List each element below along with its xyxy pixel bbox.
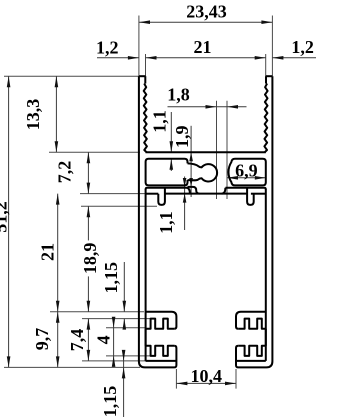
dimension line 7,4 vertical [87,319,89,361]
extension line web underside going left for 7,2 / 21 [80,193,146,195]
left box inner wall face [145,189,147,361]
svg-text:6,9: 6,9 [235,160,258,180]
web interior ceiling right segment with step arc [222,188,266,194]
extension line screw circle right for 1,8 [216,101,218,199]
dimension line 1,2 right leader [272,57,316,59]
dimension line 1,9 vertical [190,126,192,197]
arrow 23,43 right [261,20,272,24]
arrow 4 bottom (pointing up at notch floor) [112,356,116,367]
right gasket pocket plate [251,193,266,195]
svg-text:7,2: 7,2 [55,161,75,184]
dimension line 51,2 vertical [8,76,10,367]
right bracket slot back [265,329,267,346]
left gasket pocket plate [146,193,159,195]
right wall knurl serration [264,84,267,153]
arrow 7,4 bottom [87,350,91,361]
dimension line 13,3 vertical [55,76,57,152]
svg-text:1,9: 1,9 [172,126,192,149]
arrow 1,1 upper pointing down at floor [170,141,174,152]
extension line left foot edge down for 10,4 [175,369,177,389]
svg-text:1,15: 1,15 [101,262,121,294]
extension line finger bottom going left for 18,9 [81,205,157,207]
right bracket lower arm top with comb notches [238,346,266,356]
left bracket slot back [145,329,147,346]
arrow 7,4 top [87,319,91,330]
dimension line 1,8 [168,106,247,108]
extension line top of profile going left for 51,2 and 13,3 [4,75,145,77]
arrow 1,9 pointing up at jaw tip [189,178,193,187]
dimension line 4 vertical [113,319,115,366]
shelf under bottom jaw and step to underside [188,187,200,194]
web underside middle line [165,193,247,195]
extension line left of 23,43 (top of left wall up) [138,16,140,77]
arrow 1,15 bottom pointing down at arm underside [122,350,126,361]
arrow 1,8 right (pointing left) [227,105,238,109]
svg-text:51,2: 51,2 [0,201,11,233]
arrow 18,9 bottom [87,301,91,312]
screw port keyhole top jaw and circle and bottom jaw [188,163,218,181]
svg-text:1,15: 1,15 [100,386,120,418]
right wall inner face (above knurl) [265,76,267,83]
svg-text:18,9: 18,9 [80,243,100,275]
left bracket lower arm top with comb notches [146,346,175,356]
arrow 1,15 upper pointing down at bracket top [123,301,127,312]
dimension line 1,1 lower vertical [184,177,186,231]
arrow 18,9 top [87,206,91,217]
arrow 1,1 lower pointing up at underside [183,194,187,203]
extension line right of 23,43 (top of right wall up) [271,16,273,77]
dimension line 1,1 upper vertical [170,112,172,152]
arrow 1,2 left (pointing right at outer wall) [128,56,139,60]
left lower arm underside line [146,360,177,362]
extension line lower arm underside going left for 7,4 / 1,15 [82,360,146,362]
svg-text:21: 21 [194,37,212,57]
left web hole (rounded rect open at keyhole throat) [146,159,188,186]
extension line bracket top going left for 21 / 9,7 / 1,15 [50,311,144,313]
arrow 21-left bottom [56,301,60,312]
extension line right foot edge down for 10,4 [235,369,237,389]
right box inner wall face [265,189,267,361]
dimension line 1,15 upper vertical [123,262,125,312]
arrow 13,3 bottom [55,141,59,152]
extension line bottom edge going left for 51,2 / 9,7 / 1,15 [4,366,140,368]
extension line right hole left edge for 1,8 [226,101,228,199]
svg-text:1,8: 1,8 [167,85,190,105]
right bracket upper arm underside with comb notches [238,319,266,329]
left gasket finger (U hanging down) [158,188,165,205]
left wall cap [139,75,146,77]
arrow 1,15 upper pointing up at notch ceiling [123,319,127,330]
left wall inner face (above knurl) [144,76,146,83]
svg-text:23,43: 23,43 [186,1,227,21]
dimension line 6,9 [227,177,266,179]
arrow 1,1 lower pointing down at slot ceiling [183,178,187,187]
svg-text:1,2: 1,2 [291,37,314,57]
left wall knurl serration [144,84,147,153]
svg-text:1,2: 1,2 [96,37,119,57]
arrow 1,8 left (pointing right) [206,105,217,109]
svg-text:21: 21 [37,243,57,261]
arrow 1,15 bottom pointing up at bottom edge [122,367,126,378]
arrow 1,9 pointing down at floor [189,152,193,161]
right web hole 6,9 (rounded rect) [228,159,265,186]
extension line inner left wall up for 21 [145,54,147,76]
arrow 9,7 bottom [56,356,60,367]
arrow 23,43 left [139,20,150,24]
arrow 6,9 left [227,176,238,180]
arrow 7,2 bottom [87,183,91,194]
arrow 51,2 bottom [7,356,11,367]
extension line channel floor going left for 13,3 / 7,2 [49,151,140,153]
dimension line 1,15 upper lower tail [123,319,125,328]
arrow 21-left top [56,194,60,205]
right wall cap [266,75,273,77]
text 18,9 rotated (with white backing over its line) [80,240,100,276]
svg-text:10,4: 10,4 [191,366,223,386]
dimension line 21 / 9,7 vertical chain [57,194,59,368]
extension line arm underside going left for 4 [106,327,146,329]
arrow 10,4 right [225,382,236,386]
extension line lower notch floor going left for 4 [106,355,151,357]
svg-text:9,7: 9,7 [32,328,52,351]
svg-text:1,1: 1,1 [156,211,176,234]
dimension line 1,2 left leader [97,57,139,59]
left bracket upper arm underside with comb notches [146,319,175,329]
dimension line 10,4 [176,382,236,384]
dimension line 21 top [146,57,266,59]
extension line inner right wall up for 21 [265,54,267,76]
arrow 10,4 left [176,382,187,386]
dimension line 1,15 bottom vertical [123,352,125,417]
dimension line 18,9 vertical [87,206,89,312]
arrow 9,7 top [56,312,60,323]
svg-text:7,4: 7,4 [67,329,87,352]
left outer wall down to bottom-left corner and bottom edge to left foot [139,76,177,367]
svg-text:13,3: 13,3 [23,99,43,131]
svg-text:4: 4 [94,335,114,344]
right interior floor and mouth corner [236,312,266,329]
arrow 13,3 top [55,76,59,87]
channel floor [146,151,266,153]
web interior ceiling left segment with step arc [146,188,190,194]
arrow 7,2 top [87,152,91,163]
arrow 51,2 top [7,76,11,87]
left interior floor and mouth corner [146,312,177,329]
right outer wall down to bottom-right corner and bottom edge to right foot [236,76,272,367]
dimension line 7,2 vertical [87,152,89,193]
right lower arm underside line [236,360,266,362]
dimension line 1,1 upper lower tail [170,159,172,171]
svg-text:1,1: 1,1 [150,110,170,133]
arrow 4 top (pointing down at arm underside) [112,317,116,328]
arrow 1,2 right (pointing left at outer wall) [272,56,283,60]
arrow 21-top right / 1,2-right left [255,56,266,60]
dimension line 23,43 [139,21,273,23]
arrow 21-top left / 1,2-left right [146,56,157,60]
extension line notch ceiling going left for 1,15 / 7,4 [82,318,151,320]
arrow 6,9 right [255,176,266,180]
arrow 1,1 upper pointing up at hole top [170,159,174,170]
right gasket finger (U hanging down) [247,188,254,205]
